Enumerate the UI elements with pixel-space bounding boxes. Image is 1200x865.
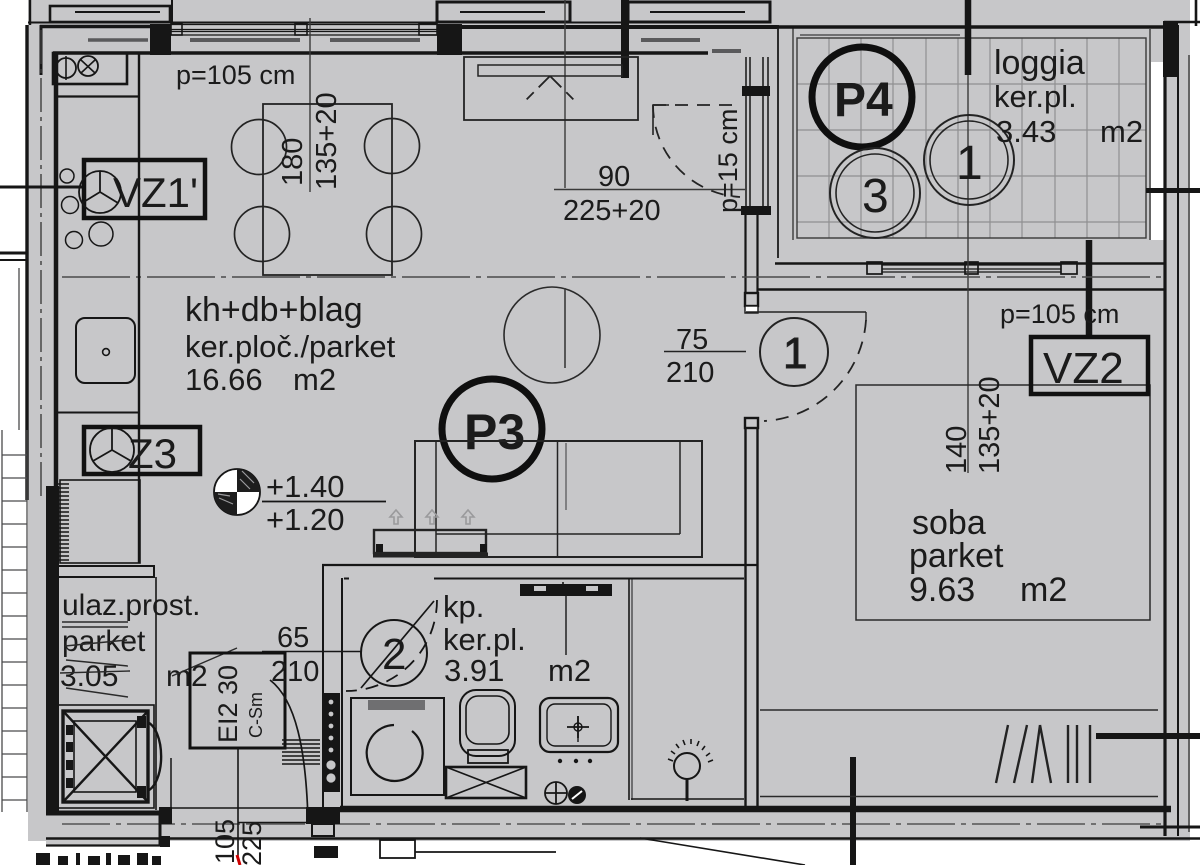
svg-text:p=15 cm: p=15 cm [713, 109, 743, 213]
svg-text:90: 90 [598, 161, 630, 193]
svg-text:210: 210 [666, 357, 714, 389]
svg-text:135+20: 135+20 [974, 376, 1006, 474]
svg-text:parket: parket [909, 537, 1004, 575]
svg-text:65: 65 [277, 622, 309, 654]
svg-text:kh+db+blag: kh+db+blag [185, 291, 363, 329]
svg-text:140: 140 [941, 426, 973, 474]
svg-text:1: 1 [956, 137, 983, 190]
svg-text:3.91: 3.91 [444, 653, 504, 688]
svg-text:ker.pl.: ker.pl. [994, 79, 1077, 114]
svg-text:105: 105 [210, 819, 240, 864]
svg-text:ker.pl.: ker.pl. [443, 622, 526, 657]
svg-text:parket: parket [62, 625, 146, 658]
svg-text:EI2 30: EI2 30 [213, 665, 243, 743]
svg-text:180: 180 [277, 138, 309, 186]
svg-text:135+20: 135+20 [311, 92, 343, 190]
svg-text:P4: P4 [834, 74, 893, 127]
svg-text:VZ1': VZ1' [113, 169, 198, 216]
svg-text:2: 2 [382, 630, 406, 679]
svg-text:kp.: kp. [443, 589, 484, 624]
svg-text:ker.ploč./parket: ker.ploč./parket [185, 329, 396, 364]
svg-text:m2: m2 [293, 362, 336, 397]
svg-text:P3: P3 [464, 404, 525, 460]
svg-text:m2: m2 [548, 653, 591, 688]
svg-text:225+20: 225+20 [563, 195, 661, 227]
svg-text:75: 75 [676, 324, 708, 356]
svg-text:1: 1 [783, 329, 807, 378]
svg-text:C-Sm: C-Sm [246, 692, 266, 738]
svg-text:ulaz.prost.: ulaz.prost. [62, 589, 200, 622]
svg-text:p=105 cm: p=105 cm [1000, 299, 1119, 329]
svg-text:loggia: loggia [994, 44, 1085, 82]
svg-text:16.66: 16.66 [185, 362, 263, 397]
svg-text:+1.20: +1.20 [266, 502, 344, 537]
svg-text:9.63: 9.63 [909, 571, 975, 609]
svg-text:3: 3 [862, 170, 889, 223]
svg-text:p=105 cm: p=105 cm [176, 60, 295, 90]
svg-text:+1.40: +1.40 [266, 469, 344, 504]
svg-text:3.43: 3.43 [996, 114, 1056, 149]
svg-text:210: 210 [271, 656, 319, 688]
svg-text:m2: m2 [1020, 571, 1067, 609]
svg-text:Z3: Z3 [128, 430, 177, 477]
svg-text:VZ2: VZ2 [1043, 344, 1124, 393]
svg-text:225: 225 [237, 821, 267, 865]
svg-text:m2: m2 [1100, 114, 1143, 149]
